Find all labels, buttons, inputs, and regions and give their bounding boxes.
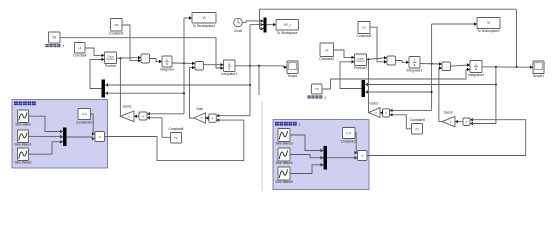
wire Constant11-P8 [355,133,358,153]
to-workspace Yt [477,18,500,34]
wire faint vertical [261,101,263,191]
constant Y0 (initial position y) [308,84,327,100]
subsystem box 1 (lavender) [12,100,108,169]
to-workspace XY_t [276,20,299,35]
svg-text:Product1: Product1 [354,66,367,70]
svg-text:y: y [325,96,327,100]
wire x coupling stub [258,66,260,95]
scope Scope1 [533,61,544,78]
svg-text:XY_t: XY_t [284,23,291,27]
svg-text:Sine Wave2: Sine Wave2 [14,161,31,165]
wire U1-S1 [172,62,195,65]
wire yvel vertical [431,24,433,110]
svg-text:Integrator3: Integrator3 [468,73,484,77]
product P8 (box2 out) [355,151,368,161]
wire box1 out loop to P3 in2 [105,120,244,161]
wire L2-P5 [334,50,355,59]
svg-text:s: s [414,63,416,67]
svg-text:Sine Wave3: Sine Wave3 [275,142,292,146]
svg-text:1: 1 [299,123,301,127]
integrator U3 [407,57,423,73]
svg-text:Product: Product [105,64,116,68]
wire mux line2 [105,92,184,94]
svg-text:·: · [446,66,447,70]
wire mux line1 [105,84,250,86]
product P7 (by Gain3) [463,118,473,126]
node y_t line1 tap [495,84,497,86]
node x_t junction 2 [258,65,260,67]
wire P3-Gain [206,116,209,119]
product P2 (by Gain1) [139,112,150,120]
wire M3-P4 [67,137,96,139]
wire vel-P2 in1 [149,113,185,115]
sine wave SW6 [275,167,292,184]
svg-text:Sine Wave1: Sine Wave1 [14,143,31,147]
svg-text:Gain: Gain [196,107,203,111]
product P1 [105,52,117,68]
svg-text:×: × [99,135,101,139]
wire x_t to P3 in1 [218,115,250,117]
gain Gain2 [369,102,381,118]
wire SW5-M5 [290,155,324,158]
svg-text:Scope: Scope [288,74,298,78]
constant Constant11 [341,128,357,144]
wire Gain feedback [190,66,196,118]
svg-text:[t u]: [t u] [82,112,87,116]
wire SW2-M3 [29,135,64,137]
svg-text:·: · [199,65,200,69]
wire S1-U2 [204,63,224,66]
wire SW4-M5 [290,135,324,151]
wire L1-P1 [85,48,105,57]
scope Scope [287,61,298,78]
wire Constant5-P6 in2 [391,115,412,129]
wire box2 out loop to P7 in1 [367,120,526,156]
node y_t junction 2 [516,66,518,68]
wire D2-U3 [396,61,410,65]
node x_t line1 tap [249,84,251,86]
svg-text:Constant1: Constant1 [109,31,124,35]
wire yvel-Yt [432,22,477,25]
wire M5-P8 [327,157,358,159]
wire P7-Gain3 [455,120,463,123]
wire P1-D1 [117,56,142,59]
svg-text:Sine Wave: Sine Wave [15,123,31,127]
svg-text:×: × [361,154,363,158]
svg-text:To Workspace1: To Workspace1 [193,24,216,28]
mux M5 (box2) [321,146,328,170]
constant Constant5 [410,118,425,134]
node y_t junction [495,66,497,68]
svg-text:To Workspace2: To Workspace2 [477,29,500,33]
svg-text:Product: Product [356,60,365,63]
sine wave SW5 [275,148,292,165]
svg-text:Constant11: Constant11 [341,140,357,144]
wire U4-Scope1 [482,66,533,69]
svg-text:X0: X0 [52,36,56,40]
sum S1 [195,62,204,71]
wire Gain3 feedback [439,66,442,121]
wire P2-Gain1 [134,115,139,118]
svg-text:Y0: Y0 [315,87,319,91]
sine wave SW4 [275,129,292,146]
node x_t junction [249,65,251,67]
svg-text:Constant5: Constant5 [410,118,425,122]
svg-text:×: × [385,111,387,115]
svg-text:Constant2: Constant2 [319,57,334,61]
node y velocity tap [431,63,433,65]
svg-text:Integrator2: Integrator2 [407,69,423,73]
wire y_t vertical up [516,9,518,67]
wire M1-XYt [267,23,277,26]
constant Constant10 [76,109,93,125]
mux M3 (box1) [60,128,67,147]
clock [234,18,243,33]
node P1 out / Gain1 tap [119,57,121,59]
mux M4 (feedback right, flipped) [362,80,369,97]
node line2 join [183,92,185,94]
svg-text:[t u]: [t u] [347,131,352,135]
constant L1 [73,43,86,58]
constant X0 (initial position x) [46,32,65,48]
svg-text:Gain3: Gain3 [444,111,453,115]
wire vel-Vt [184,16,192,19]
svg-text:V1: V1 [362,26,366,30]
mux M1 (top) [261,18,267,33]
wire X0-Integrator1 IC [60,38,224,70]
divide D2 [387,56,396,65]
subsystem box 2 (lavender) [273,120,369,190]
svg-text:s: s [228,66,230,70]
svg-text:Product: Product [106,58,115,61]
svg-text:Sine Wave5: Sine Wave5 [275,180,292,184]
to-workspace Vt [192,13,216,28]
wire M2 out to P1 in2 [90,58,105,89]
sine wave SW1 [15,110,31,127]
svg-text:l*m: l*m [415,127,419,131]
sine wave SW2 [14,130,31,147]
wire mux4 line1 [365,84,496,86]
integrator U4 [468,61,484,78]
wire U2-Scope [235,66,287,69]
svg-text:s: s [475,67,477,71]
svg-text:-K: -K [449,120,452,124]
svg-text:l*m: l*m [174,136,178,140]
wire P6-Gain2 [380,111,383,114]
svg-text:Gain1: Gain1 [123,105,132,109]
constant V0 [109,19,124,36]
product P6 (by Gain2) [383,109,393,117]
svg-text:V0: V0 [114,23,118,27]
svg-text:s: s [166,62,168,66]
wire x_t vertical [249,25,251,116]
constant V1 [356,22,371,38]
svg-text:Vt: Vt [202,16,205,20]
node velocity tap [183,62,185,64]
svg-text:Constant6: Constant6 [168,127,183,131]
wire V0-D1 [122,25,141,62]
wire SW3-M3 [29,142,64,154]
wire yvel-P6 in1 [391,109,432,111]
wire V1-D2 [370,27,387,63]
product P4 (box1 out) [92,132,105,142]
svg-text:x: x [63,44,65,48]
product P3 (by Gain) [209,114,220,122]
svg-text:L2: L2 [325,48,329,52]
svg-text:-K: -K [375,111,378,115]
wire Constant10-P4 [91,114,96,134]
mux M2 (feedback, flipped) [102,80,109,98]
wire SW1-M3 [29,116,64,131]
constant Constant6 [168,127,183,143]
svg-text:×: × [466,120,468,124]
wire U3-S2 [420,62,442,65]
svg-text:Constant: Constant [73,53,86,57]
wire Constant6-P2 in2 [149,118,171,138]
wire P5-D2 [367,56,388,59]
svg-text:·: · [145,58,146,62]
svg-text:×: × [142,114,144,118]
wire y_t top line [260,9,517,29]
product P5 [354,54,367,70]
gain Gain [194,107,206,123]
svg-text:Constant3: Constant3 [356,34,371,38]
wire S2-U4 [451,63,471,66]
svg-text:Integrator: Integrator [160,68,175,72]
wire vel vertical (Vt/mux/P2) [183,18,185,114]
gain Gain1 [120,105,134,122]
svg-text:-K: -K [128,115,131,119]
svg-text:-K: -K [200,116,203,120]
gain Gain3 [442,111,455,127]
svg-text:Scope1: Scope1 [533,74,544,78]
wire Gain1 up [119,58,121,116]
wire D1-U1 [150,59,163,64]
wire SW6-M5 [290,165,324,174]
node P5 out / Gain2 tap [368,58,370,60]
wire y_t vertical down [472,67,496,124]
integrator U2 [221,60,237,76]
svg-text:Constant10: Constant10 [76,120,93,124]
wire M4 out to P5 in2 [340,60,362,88]
node line2r join [431,91,433,93]
wire Gain2 up [368,59,370,112]
svg-text:Integrator1: Integrator1 [221,72,237,76]
wire clock-M1 [242,21,261,23]
svg-text:Clock: Clock [234,29,243,33]
svg-text:·: · [391,60,392,64]
svg-text:L1: L1 [78,46,82,50]
svg-text:Gain2: Gain2 [369,102,378,106]
svg-text:To Workspace: To Workspace [277,31,298,35]
wire mux4 line2 [365,91,432,93]
wire Y0-Integrator3 IC [322,68,470,89]
divide D1 [141,54,150,63]
svg-text:×: × [212,116,214,120]
sine wave SW3 [14,148,31,165]
svg-text:Sine Wave4: Sine Wave4 [275,161,292,165]
constant L2 [319,43,334,61]
wire x_t to mux M1 [250,24,262,26]
sum S2 [442,62,451,71]
integrator U1 [160,56,175,72]
svg-text:Yt: Yt [487,21,490,25]
